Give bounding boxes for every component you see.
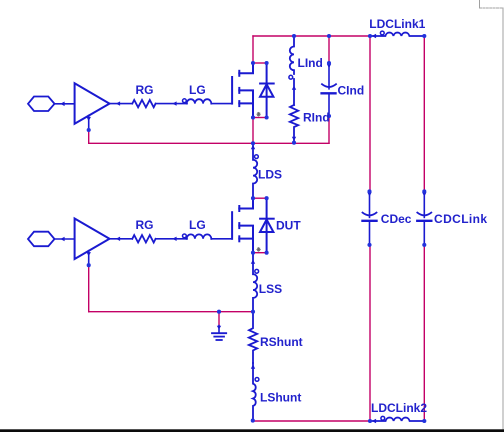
inductor LInd: [289, 36, 294, 105]
svg-text:DUT: DUT: [276, 219, 301, 233]
pin arrow LInd-RInd: [292, 86, 296, 90]
wire P1 to U1: [55, 103, 75, 105]
wire M1 drain to D1 cathode: [253, 62, 267, 64]
pin arrow LDS: [251, 145, 255, 149]
capacitor CDCLink: [417, 191, 431, 245]
inductor LG2: [183, 234, 187, 238]
inductor LDCLink1: [370, 31, 424, 36]
wire LG2 to DUT gate: [211, 238, 232, 240]
resistor RG1: [132, 100, 155, 107]
svg-text:LDS: LDS: [258, 168, 282, 182]
wire mid rail (switch node): [89, 142, 329, 144]
wire M1 drain drop: [252, 36, 254, 63]
svg-text:CDec: CDec: [381, 212, 412, 226]
svg-text:CInd: CInd: [338, 84, 365, 98]
inductor LShunt: [253, 363, 259, 421]
wire right DC rail upper: [423, 36, 425, 191]
pin arrow LDCLink2: [372, 419, 376, 423]
pin arrow U2 out: [116, 237, 120, 241]
pin arrow RInd bottom: [292, 137, 296, 141]
asterisk DUT source: [257, 248, 260, 252]
wire RG2 to LG2: [156, 238, 187, 240]
capacitor CInd: [322, 63, 336, 116]
op-amp U2 gate driver buffer: [75, 219, 110, 260]
inductor LDCLink2: [370, 416, 424, 421]
pin U2 return: [88, 251, 90, 266]
wire M1 source down to mid rail: [252, 118, 254, 144]
wire P2 to U2: [55, 238, 75, 240]
op-amp U1 gate driver buffer: [75, 83, 110, 124]
wire lower return rail: [89, 311, 253, 313]
pin arrow RG2-LG2: [172, 237, 176, 241]
svg-text:RG: RG: [136, 218, 154, 232]
wire left DC rail lower: [369, 245, 371, 421]
inductor LG1: [183, 99, 187, 103]
diode D1: [260, 63, 274, 118]
wire driver U1 return drop: [88, 130, 90, 143]
wire ground stub: [218, 312, 220, 326]
pin arrow P2: [60, 237, 64, 242]
svg-text:RInd: RInd: [303, 111, 330, 125]
ground symbol: [212, 326, 226, 340]
port P1 hexagon: [28, 97, 55, 112]
transistor DUT (device under test MOSFET): [232, 198, 253, 253]
svg-text:LSS: LSS: [259, 282, 282, 296]
wire CInd top from rail: [328, 36, 330, 63]
wire U2 output: [110, 238, 133, 240]
wire right DC rail lower: [423, 245, 425, 421]
wire top rail node V+: [253, 35, 370, 37]
window frame black bottom bar: [0, 429, 504, 432]
pin arrow CDec: [367, 192, 371, 196]
svg-text:LG: LG: [189, 218, 206, 232]
resistor RG2: [132, 235, 155, 242]
pin arrow ground: [217, 326, 221, 330]
pin arrow U1 out: [116, 101, 120, 105]
pin arrow RG1-LG1: [172, 101, 176, 105]
inductor LSS: [253, 253, 259, 312]
capacitor CDec: [363, 191, 377, 245]
diode D2: [260, 198, 274, 253]
svg-text:RG: RG: [136, 83, 154, 97]
wire bottom rail: [253, 420, 370, 422]
window frame grey corner top-right: [479, 0, 481, 8]
transistor M1 (high-side MOSFET): [232, 63, 253, 118]
pin arrow U2 return: [87, 252, 91, 256]
svg-text:RShunt: RShunt: [260, 335, 303, 349]
pin arrow LDCLink1: [372, 34, 376, 38]
pin arrow LSS: [251, 260, 255, 264]
pin arrow RShunt-LShunt: [251, 364, 255, 368]
pin arrow CDCLink: [422, 192, 426, 196]
inductor LDS: [253, 143, 258, 198]
pin U1 return: [88, 116, 90, 131]
wire RG1 to LG1: [156, 103, 187, 105]
pin arrow P1: [60, 102, 64, 107]
svg-text:LInd: LInd: [298, 56, 323, 70]
resistor RInd: [290, 105, 298, 143]
pin arrow U1 return: [87, 117, 91, 121]
svg-text:LDCLink2: LDCLink2: [371, 401, 427, 415]
wire U1 output: [110, 103, 133, 105]
svg-text:LG: LG: [189, 83, 206, 97]
wire LG1 to M1 gate: [211, 103, 232, 105]
wire M1 source to D1 anode: [253, 117, 267, 119]
port P2 hexagon: [28, 232, 55, 247]
svg-text:LDCLink1: LDCLink1: [369, 17, 425, 31]
wire left DC rail upper: [369, 36, 371, 191]
svg-text:LShunt: LShunt: [260, 391, 301, 405]
asterisk M1 source: [257, 112, 260, 116]
pin arrow CInd: [327, 64, 331, 68]
wire DUT source to D2 anode: [253, 252, 267, 254]
svg-text:CDCLink: CDCLink: [434, 212, 487, 226]
wire driver U2 return drop: [88, 265, 90, 312]
wire DUT drain to D2 cathode: [253, 197, 267, 199]
wire CInd bottom to mid rail: [328, 116, 330, 143]
resistor RShunt: [249, 312, 257, 363]
